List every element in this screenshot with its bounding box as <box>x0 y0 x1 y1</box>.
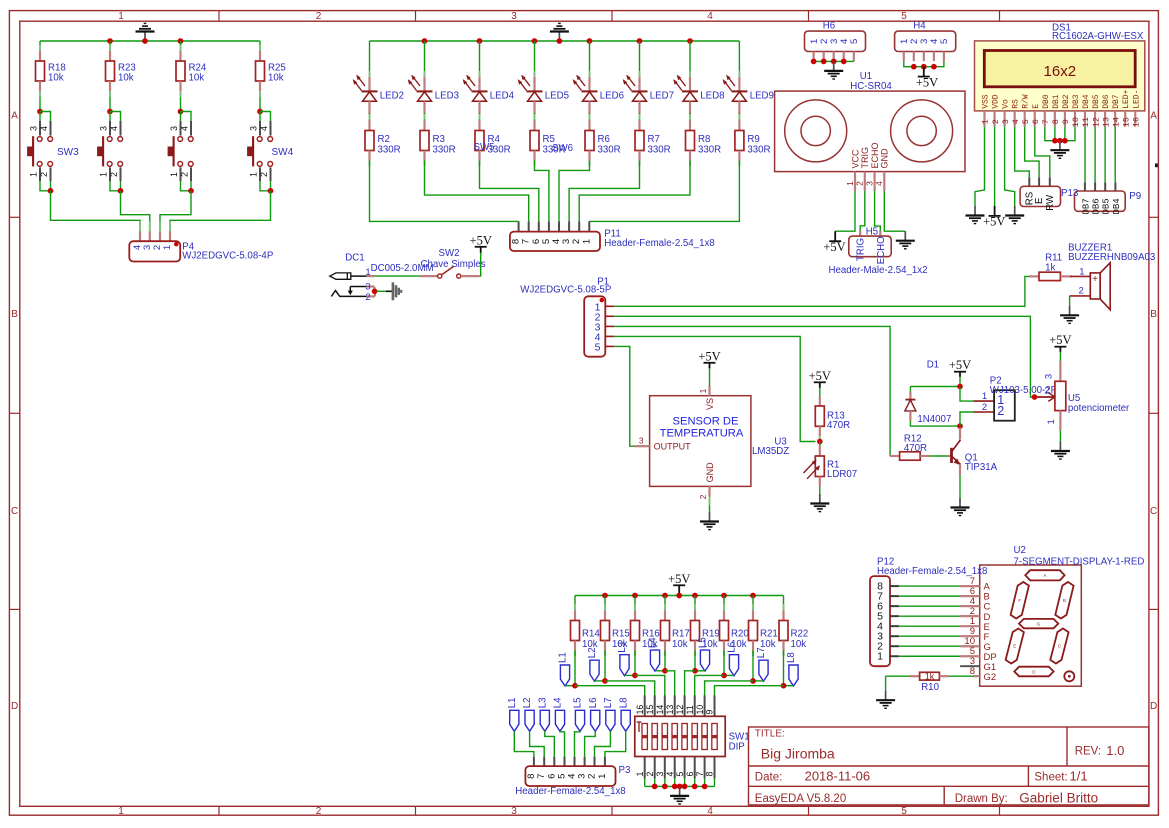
resistor R21 10k <box>749 604 778 651</box>
junction <box>1052 138 1058 144</box>
svg-text:RW: RW <box>1045 194 1056 211</box>
svg-text:U2: U2 <box>1014 545 1026 556</box>
svg-text:15: 15 <box>1121 117 1131 127</box>
svg-text:10k: 10k <box>189 73 205 84</box>
wire <box>1005 127 1015 206</box>
svg-text:Header-Female-2.54_1x8: Header-Female-2.54_1x8 <box>877 566 987 577</box>
junction <box>372 289 378 295</box>
wire <box>589 113 591 121</box>
resistor R15 10k <box>601 604 630 651</box>
wire <box>704 778 706 786</box>
power +5V <box>1049 333 1071 352</box>
svg-text:R3: R3 <box>433 134 445 145</box>
junction <box>750 678 756 684</box>
junction <box>587 38 593 44</box>
svg-text:1.0: 1.0 <box>1106 743 1124 758</box>
wire <box>819 442 821 448</box>
junction <box>750 593 756 599</box>
svg-text:L3: L3 <box>617 642 628 653</box>
junction <box>662 668 668 674</box>
svg-text:2: 2 <box>991 119 1001 124</box>
svg-text:LDR07: LDR07 <box>827 469 857 480</box>
switch (tactile) <box>98 121 123 181</box>
wire <box>605 731 626 757</box>
power +5V <box>983 206 1005 228</box>
wire <box>121 191 150 224</box>
connector P12 Header-Female-2.54_1x8 <box>870 556 987 666</box>
svg-text:L2: L2 <box>587 647 598 658</box>
svg-text:7: 7 <box>695 772 705 777</box>
svg-text:L8: L8 <box>618 698 629 709</box>
sensor U1 HC-SR04 <box>775 71 965 191</box>
resistor R14 10k <box>571 604 601 651</box>
svg-text:R20: R20 <box>731 628 749 639</box>
wire <box>40 40 260 42</box>
wire <box>595 680 606 682</box>
svg-text:5: 5 <box>901 806 907 817</box>
svg-text:1: 1 <box>597 774 608 779</box>
wire <box>425 161 529 222</box>
wire <box>899 635 960 637</box>
svg-text:10: 10 <box>695 705 705 715</box>
svg-text:470R: 470R <box>904 443 927 454</box>
resistor R2 330R <box>365 121 401 161</box>
wire <box>259 91 261 112</box>
net label L3 <box>617 642 629 676</box>
svg-text:A: A <box>1043 573 1046 578</box>
net label L4 <box>648 637 660 671</box>
net label L4 <box>553 697 565 731</box>
wire <box>614 276 1029 306</box>
svg-text:EasyEDA V5.8.20: EasyEDA V5.8.20 <box>755 793 846 805</box>
junction <box>692 593 698 599</box>
svg-text:VDD: VDD <box>992 94 1001 109</box>
wire <box>479 113 481 121</box>
svg-text:DB7: DB7 <box>1081 198 1091 214</box>
svg-text:RC1602A-GHW-ESX: RC1602A-GHW-ESX <box>1052 31 1144 42</box>
wire <box>424 113 426 121</box>
wire <box>975 127 985 206</box>
junction <box>37 109 43 115</box>
svg-text:13: 13 <box>665 705 675 715</box>
wire <box>723 651 725 676</box>
wire <box>110 112 121 122</box>
svg-text:H5: H5 <box>866 226 878 237</box>
junction <box>532 38 538 44</box>
junction <box>921 64 927 70</box>
svg-text:2: 2 <box>855 181 865 186</box>
wire <box>260 181 271 191</box>
wire <box>634 596 636 607</box>
wire <box>50 181 52 191</box>
svg-text:B: B <box>1063 598 1066 603</box>
svg-text:DC1: DC1 <box>345 252 364 263</box>
svg-text:TEMPERATURA: TEMPERATURA <box>660 427 744 439</box>
svg-text:LED5: LED5 <box>545 91 569 102</box>
svg-text:DB5: DB5 <box>1102 198 1112 214</box>
wire <box>752 651 754 681</box>
wire <box>752 596 754 607</box>
svg-text:SW5: SW5 <box>474 142 495 153</box>
svg-text:G2: G2 <box>984 672 997 683</box>
svg-text:4: 4 <box>665 772 675 777</box>
wire <box>960 387 974 402</box>
wire <box>910 421 960 426</box>
svg-text:11: 11 <box>1081 117 1091 127</box>
junction <box>422 38 428 44</box>
svg-text:H4: H4 <box>913 21 926 32</box>
junction <box>1032 394 1038 400</box>
wire <box>689 41 691 72</box>
junction <box>911 64 917 70</box>
svg-text:DIP: DIP <box>729 741 745 752</box>
svg-text:SW6: SW6 <box>552 143 573 154</box>
svg-text:330R: 330R <box>433 145 456 156</box>
wire <box>40 181 51 191</box>
svg-text:R8: R8 <box>698 134 710 145</box>
svg-text:H6: H6 <box>823 21 835 32</box>
svg-text:RS: RS <box>1012 99 1021 109</box>
svg-text:2: 2 <box>39 172 49 177</box>
wire <box>1054 127 1056 141</box>
svg-text:10k: 10k <box>791 639 807 650</box>
wire <box>753 680 764 682</box>
net label L5 <box>573 698 585 732</box>
resistor R8 330R <box>686 121 722 161</box>
svg-text:Sheet:: Sheet: <box>1034 772 1067 784</box>
wire <box>949 675 973 677</box>
junction <box>188 188 194 194</box>
svg-text:1: 1 <box>698 388 708 393</box>
wire <box>181 181 192 191</box>
svg-text:4: 4 <box>109 126 119 131</box>
wire <box>574 651 576 686</box>
wire <box>560 731 565 757</box>
wire <box>259 41 261 46</box>
wire <box>634 651 636 676</box>
junction <box>957 423 963 429</box>
wire <box>695 675 724 695</box>
svg-text:DB1: DB1 <box>1052 94 1061 109</box>
wire <box>180 112 182 122</box>
svg-text:R17: R17 <box>672 628 690 639</box>
wire <box>604 651 606 681</box>
wire <box>614 316 1033 397</box>
svg-text:ECHO: ECHO <box>870 142 880 168</box>
svg-text:potenciometer: potenciometer <box>1068 403 1130 414</box>
LED LED4 <box>463 71 515 114</box>
svg-text:DB5: DB5 <box>1092 94 1101 109</box>
svg-text:1: 1 <box>1046 419 1057 424</box>
wire <box>694 651 696 671</box>
svg-text:+5V: +5V <box>949 358 971 372</box>
resistor R10 1k <box>910 671 950 693</box>
svg-text:L1: L1 <box>558 652 569 663</box>
svg-text:LED+: LED+ <box>1122 89 1131 108</box>
svg-text:DB3: DB3 <box>1072 94 1081 109</box>
junction <box>721 593 727 599</box>
svg-text:330R: 330R <box>747 145 770 156</box>
svg-text:L5: L5 <box>573 698 584 709</box>
wire <box>644 778 646 786</box>
svg-text:G: G <box>1037 622 1041 627</box>
DIP switch SW1 <box>635 695 750 778</box>
svg-text:1: 1 <box>877 651 883 663</box>
ground <box>896 231 915 249</box>
net label L1 <box>558 652 570 686</box>
junction <box>781 683 787 689</box>
wire <box>835 191 855 231</box>
wire <box>819 388 821 398</box>
wire <box>535 161 549 222</box>
wire <box>783 596 785 607</box>
svg-text:2: 2 <box>982 402 987 413</box>
svg-text:DB4: DB4 <box>1082 94 1091 109</box>
wire <box>1114 127 1116 183</box>
wire <box>899 595 960 597</box>
wire <box>595 731 611 757</box>
resistor R17 10k <box>661 604 690 651</box>
svg-text:LED8: LED8 <box>700 91 724 102</box>
svg-text:1: 1 <box>118 11 124 22</box>
wire <box>270 181 272 191</box>
wire <box>930 455 947 457</box>
wire <box>40 112 51 122</box>
wire <box>960 412 974 426</box>
wire <box>569 161 639 222</box>
wire <box>684 778 686 786</box>
wire <box>260 112 271 122</box>
wire <box>635 675 665 695</box>
ground <box>824 61 843 79</box>
wire <box>39 112 41 122</box>
svg-text:TIP31A: TIP31A <box>965 462 998 473</box>
svg-text:2018-11-06: 2018-11-06 <box>805 769 871 784</box>
svg-text:SW2: SW2 <box>439 248 460 259</box>
junction <box>662 784 668 790</box>
wire <box>51 191 141 224</box>
resistor R23 10k <box>106 45 136 91</box>
svg-text:Big Jiromba: Big Jiromba <box>761 745 835 761</box>
wire <box>715 686 784 696</box>
svg-text:330R: 330R <box>648 145 671 156</box>
resistor R13 470R <box>815 396 850 436</box>
svg-text:3: 3 <box>1044 374 1055 379</box>
connector P13 <box>1020 177 1078 210</box>
svg-text:R14: R14 <box>582 628 600 639</box>
power +5V <box>698 349 720 386</box>
wire <box>665 671 675 696</box>
text SW6 <box>552 143 573 154</box>
svg-text:L6: L6 <box>727 642 738 653</box>
net label L7 <box>603 698 615 732</box>
junction <box>107 109 113 115</box>
svg-text:3: 3 <box>29 126 39 131</box>
net label L7 <box>756 647 768 681</box>
wire <box>190 181 192 191</box>
wire <box>1059 352 1061 362</box>
resistor R22 10k <box>779 604 808 651</box>
junction <box>602 678 608 684</box>
svg-text:16x2: 16x2 <box>1044 63 1077 80</box>
junction <box>811 59 817 65</box>
diode D1 1N4007 <box>905 359 951 425</box>
ground <box>670 786 689 804</box>
svg-text:5: 5 <box>939 39 950 44</box>
svg-text:WJ2EDGVC-5.08-4P: WJ2EDGVC-5.08-4P <box>182 251 273 262</box>
ground <box>700 512 719 530</box>
svg-text:10k: 10k <box>48 73 64 84</box>
svg-text:3: 3 <box>1001 119 1011 124</box>
stray mark <box>1155 164 1157 167</box>
svg-text:+5V: +5V <box>470 233 492 247</box>
svg-text:10k: 10k <box>268 73 284 84</box>
junction <box>1057 138 1063 144</box>
svg-text:Date:: Date: <box>755 772 783 784</box>
svg-text:6: 6 <box>1031 119 1041 124</box>
svg-text:1: 1 <box>845 181 855 186</box>
svg-text:10k: 10k <box>672 639 688 650</box>
power jack DC1 DC005-2.0MM <box>330 252 434 303</box>
wire <box>694 596 696 607</box>
wire <box>1084 127 1086 183</box>
svg-text:+5V: +5V <box>698 349 720 363</box>
wire <box>899 645 960 647</box>
svg-text:L8: L8 <box>786 652 797 663</box>
svg-text:SENSOR DE: SENSOR DE <box>673 415 739 427</box>
LED LED3 <box>408 71 459 114</box>
svg-text:8: 8 <box>705 772 715 777</box>
svg-text:1: 1 <box>581 239 592 244</box>
wire <box>724 674 734 676</box>
wire <box>369 113 371 121</box>
svg-text:DB4: DB4 <box>1112 198 1122 214</box>
wire <box>370 161 519 222</box>
wire <box>369 41 371 72</box>
svg-text:Header-Female-2.54_1x8: Header-Female-2.54_1x8 <box>515 786 625 797</box>
connector P11 Header-Female-2.54_1x8 <box>510 221 715 251</box>
wire <box>170 191 271 224</box>
wire <box>424 41 426 72</box>
svg-text:L2: L2 <box>522 698 533 709</box>
junction <box>662 593 668 599</box>
wire <box>180 41 182 46</box>
junction <box>268 188 274 194</box>
wire <box>589 161 739 222</box>
switch (tactile) <box>168 121 193 181</box>
power +5V <box>668 572 690 596</box>
junction <box>632 593 638 599</box>
resistor R25 10k <box>256 45 286 91</box>
svg-text:2: 2 <box>587 774 598 779</box>
svg-text:+5V: +5V <box>823 240 845 254</box>
wire <box>875 191 881 231</box>
svg-text:1N4007: 1N4007 <box>917 414 951 425</box>
svg-text:1: 1 <box>169 172 179 177</box>
svg-text:2: 2 <box>109 172 119 177</box>
svg-text:Chave Simples: Chave Simples <box>421 259 486 270</box>
wire <box>530 731 545 757</box>
wire <box>689 113 691 121</box>
svg-text:TRIG: TRIG <box>860 147 870 169</box>
junction <box>702 784 708 790</box>
svg-text:16: 16 <box>1131 117 1141 127</box>
power +5V <box>823 231 845 254</box>
svg-text:DB6: DB6 <box>1092 198 1102 214</box>
svg-text:10: 10 <box>1071 117 1081 127</box>
svg-text:ECHO: ECHO <box>876 236 887 264</box>
LED LED2 <box>353 71 404 114</box>
LED LED8 <box>674 71 725 114</box>
svg-text:LED4: LED4 <box>490 91 515 102</box>
wire <box>534 113 536 121</box>
svg-text:9: 9 <box>705 710 715 715</box>
ground <box>1005 206 1024 224</box>
wire <box>695 670 705 672</box>
wire <box>109 41 111 46</box>
svg-text:GND: GND <box>705 462 715 483</box>
svg-text:Drawn By:: Drawn By: <box>955 793 1008 805</box>
connector P1 WJ2EDGVC-5.08-5P <box>520 276 614 356</box>
svg-text:12: 12 <box>1091 117 1101 127</box>
wire <box>565 685 575 687</box>
resistor R24 10k <box>176 45 207 91</box>
svg-text:4: 4 <box>707 806 713 817</box>
svg-text:3: 3 <box>864 181 874 186</box>
svg-text:1: 1 <box>982 391 987 402</box>
junction <box>687 38 693 44</box>
svg-text:4: 4 <box>39 126 49 131</box>
photoresistor R1 LDR07 <box>804 446 858 487</box>
junction <box>682 784 688 790</box>
junction <box>676 593 682 599</box>
connector P3 Header-Female-2.54_1x8 <box>515 757 630 797</box>
svg-text:R2: R2 <box>378 134 390 145</box>
switch SW4 <box>248 121 294 181</box>
wire <box>1025 127 1039 178</box>
junction <box>257 109 263 115</box>
svg-text:D1: D1 <box>927 359 939 370</box>
svg-text:330R: 330R <box>698 145 721 156</box>
buzzer BUZZER1 BUZZERHNB09A03 <box>1068 243 1155 310</box>
wire <box>738 41 740 72</box>
svg-text:11: 11 <box>685 705 695 714</box>
header H5 Header-Male-2.54_1x2 <box>828 226 927 276</box>
LED LED6 <box>573 71 624 114</box>
wire <box>639 41 641 72</box>
connector P9 <box>1075 182 1142 214</box>
svg-text:LED2: LED2 <box>380 91 404 102</box>
svg-text:F: F <box>1018 598 1021 603</box>
wire <box>899 655 960 657</box>
wire <box>479 41 481 72</box>
svg-text:Header-Male-2.54_1x2: Header-Male-2.54_1x2 <box>828 265 927 276</box>
wire <box>625 674 636 676</box>
net label L8 <box>786 652 798 686</box>
svg-text:7: 7 <box>1041 119 1051 124</box>
wire <box>910 386 960 388</box>
net label L6 <box>727 642 739 676</box>
connector P4 WJ2EDGVC-5.08-4P <box>129 231 273 261</box>
svg-text:470R: 470R <box>827 420 850 431</box>
wire <box>579 161 690 222</box>
svg-text:4: 4 <box>259 126 269 131</box>
svg-text:1k: 1k <box>925 671 935 681</box>
svg-text:5: 5 <box>1021 119 1031 124</box>
svg-text:BUZZERHNB09A03: BUZZERHNB09A03 <box>1068 252 1155 263</box>
svg-text:E: E <box>1013 644 1016 649</box>
header H4 <box>895 21 956 62</box>
